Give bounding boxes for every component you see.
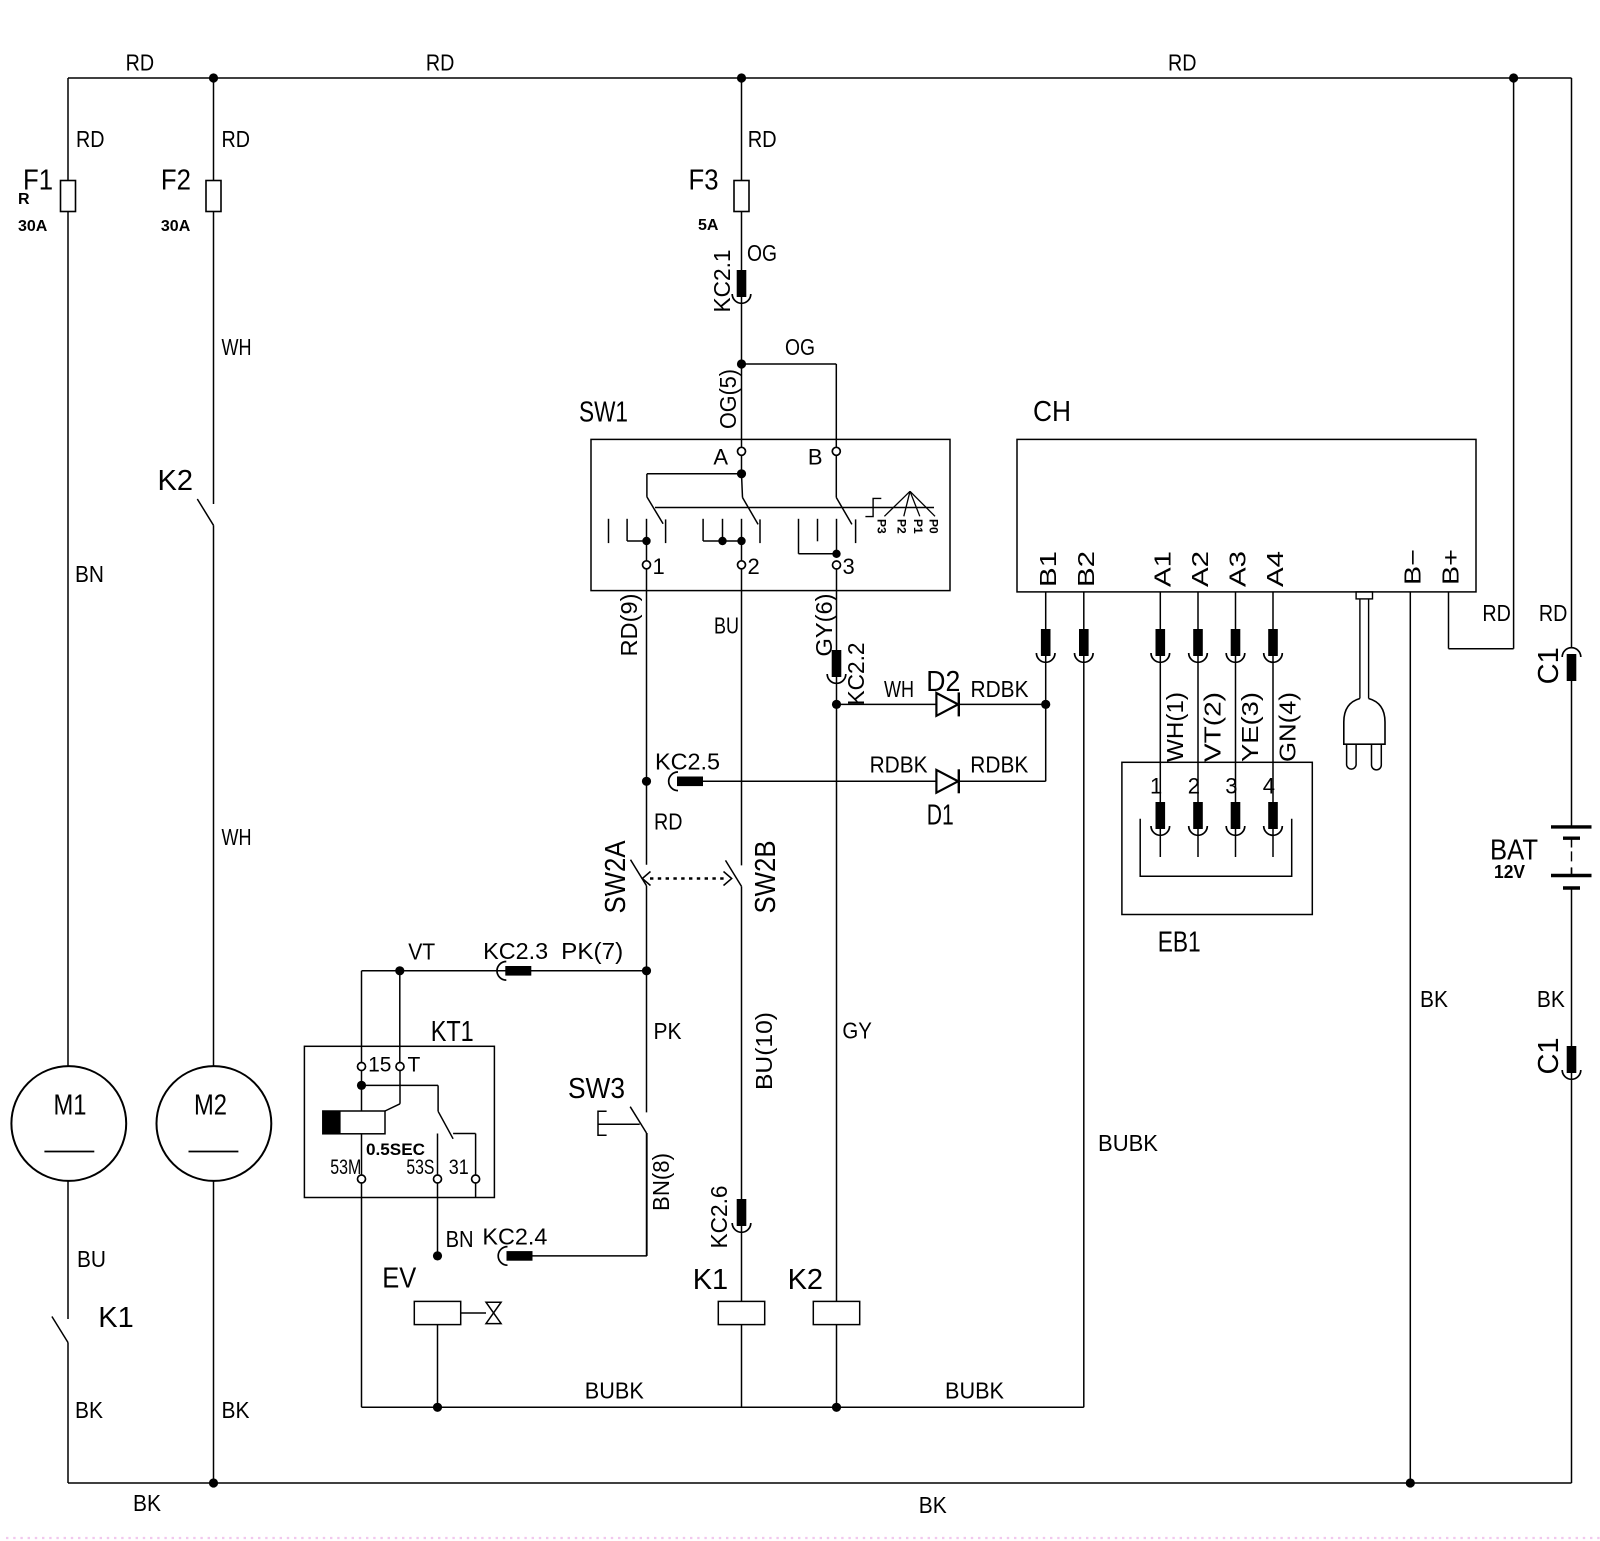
svg-text:BK: BK (222, 1397, 251, 1423)
svg-text:BK: BK (133, 1490, 162, 1516)
wire RD B+ riser to top rail (1448, 592, 1450, 649)
svg-text:2: 2 (748, 554, 760, 579)
wire BK K1 to bottom rail (67, 1343, 69, 1484)
switch arm section1 (647, 497, 663, 524)
wire GY(6) SW1 pin3 down (836, 569, 838, 650)
node section2 tap a (718, 537, 726, 545)
charger CH box (1017, 439, 1476, 592)
svg-text:GY(6): GY(6) (811, 594, 837, 657)
svg-text:RD: RD (126, 50, 155, 76)
svg-text:VT(2): VT(2) (1200, 692, 1226, 762)
svg-text:30A: 30A (161, 218, 191, 235)
switch K1 (relay contact) (52, 1317, 68, 1343)
wire GY down to coil K2 (836, 704, 838, 1301)
node SW1 common (737, 469, 746, 478)
svg-text:A: A (713, 444, 728, 469)
fuse F1 (61, 181, 76, 212)
svg-text:5A: 5A (698, 217, 719, 234)
wire RDBK D2 to node B1 (959, 703, 1046, 705)
svg-text:SW2A: SW2A (600, 840, 632, 914)
switch arm section2 (742, 474, 743, 498)
connector KC2.1 (737, 270, 747, 297)
svg-text:BUBK: BUBK (945, 1378, 1005, 1404)
svg-text:K2: K2 (788, 1264, 823, 1296)
switch SW1 box (591, 439, 950, 590)
svg-text:BUBK: BUBK (1098, 1130, 1159, 1156)
diode D2 (936, 693, 958, 716)
terminal 2 of SW1 (738, 561, 746, 569)
switch SW2B (726, 860, 742, 886)
wire BU SW1 pin2 down (741, 569, 743, 866)
connector KC2.6 (737, 1199, 747, 1226)
svg-text:OG(5): OG(5) (715, 369, 741, 429)
wire GN(4) CH to EB1 (1272, 592, 1274, 629)
svg-text:BN: BN (446, 1226, 474, 1252)
wire B1 riser (1045, 704, 1047, 781)
svg-text:WH: WH (222, 824, 252, 850)
switch SW2A (631, 860, 647, 886)
node D2/B1 junction (1041, 700, 1050, 709)
node section3 output (832, 550, 840, 558)
wire PK to SW3 (646, 971, 648, 1113)
connector KC2.3 (505, 966, 531, 976)
svg-text:WH: WH (884, 676, 914, 702)
mechanical link dashed (650, 877, 724, 879)
diode D1 (936, 770, 958, 793)
wire A to common node (741, 455, 743, 474)
svg-text:12V: 12V (1494, 862, 1525, 882)
relay coil K2 (813, 1301, 859, 1324)
svg-text:53M: 53M (330, 1156, 361, 1179)
svg-text:RD: RD (222, 126, 251, 152)
contacts section2 (702, 519, 704, 541)
svg-text:BK: BK (1537, 986, 1566, 1012)
svg-text:SW1: SW1 (579, 397, 628, 429)
wire B2 stub and connector (1083, 592, 1085, 629)
svg-text:CH: CH (1033, 396, 1071, 428)
svg-text:KC2.6: KC2.6 (706, 1186, 732, 1249)
wire BK battery to C1 lower (1571, 888, 1573, 1046)
svg-text:53S: 53S (406, 1156, 434, 1179)
svg-text:RD: RD (76, 126, 105, 152)
svg-text:EV: EV (382, 1263, 417, 1295)
wire YE(3) CH to EB1 (1235, 592, 1237, 629)
svg-text:P3: P3 (875, 519, 889, 534)
svg-text:YE(3): YE(3) (1237, 692, 1263, 762)
wire WH(1) CH to EB1 (1159, 592, 1161, 629)
svg-text:KC2.1: KC2.1 (709, 250, 735, 313)
svg-text:A4: A4 (1262, 551, 1288, 587)
node section2 tap b (737, 537, 745, 545)
node EV / BUBK rail (433, 1403, 442, 1412)
svg-text:PK: PK (654, 1018, 683, 1044)
mains plug of CH (1356, 592, 1372, 599)
wire OG branch to SW1 terminal B (742, 363, 837, 365)
svg-text:GN(4): GN(4) (1275, 692, 1301, 762)
terminal 53S (434, 1175, 442, 1183)
switch K2 (relay contact) (197, 499, 213, 525)
svg-text:1: 1 (1150, 774, 1162, 799)
fuse F3 (734, 181, 749, 212)
svg-text:B−: B− (1400, 549, 1426, 585)
terminal 1 of SW1 (643, 561, 651, 569)
contacts section1 (608, 519, 610, 543)
svg-text:B2: B2 (1073, 551, 1099, 587)
svg-text:P0: P0 (927, 519, 941, 534)
svg-text:K1: K1 (693, 1264, 728, 1296)
wire C1 to battery (1571, 681, 1573, 827)
node B- / bottom rail (1406, 1478, 1415, 1487)
svg-text:RDBK: RDBK (971, 676, 1030, 702)
svg-text:BU: BU (77, 1246, 106, 1272)
svg-text:M1: M1 (54, 1090, 87, 1122)
contact arm KT1 (438, 1111, 453, 1139)
wire WH F2 to switch K2 (213, 212, 215, 505)
svg-text:A2: A2 (1187, 551, 1213, 587)
terminal 15 of KT1 (358, 1063, 366, 1071)
svg-text:30A: 30A (18, 218, 48, 235)
svg-text:KC2.3: KC2.3 (483, 938, 548, 964)
wire OG KC2.1 to node (741, 297, 743, 364)
node junction top rail / B+ riser (1509, 73, 1518, 82)
svg-text:P1: P1 (911, 519, 925, 534)
connector KC2.4 (507, 1251, 533, 1261)
wire 53S down to EV node (437, 1183, 439, 1256)
wire BK C1 to bottom rail (1571, 1072, 1573, 1483)
motor M2 (157, 1066, 272, 1181)
push button actuator (598, 1111, 607, 1135)
svg-text:C1: C1 (1533, 1037, 1565, 1074)
wire EV coil to BUBK rail (437, 1325, 439, 1408)
connector KC2.5 (677, 777, 703, 787)
node section1 output (642, 537, 650, 545)
motor M1 (11, 1066, 126, 1181)
valve symbol (461, 1312, 486, 1314)
svg-text:M2: M2 (194, 1090, 227, 1122)
wire GY KC2.2 to node (836, 677, 838, 704)
svg-text:WH(1): WH(1) (1162, 692, 1188, 762)
wire B to section3 arm (835, 455, 837, 497)
connector C1 lower (1567, 1046, 1577, 1073)
svg-text:BK: BK (75, 1397, 104, 1423)
svg-text:OG: OG (747, 240, 777, 266)
wire common to section1 arm (647, 473, 742, 475)
svg-text:B+: B+ (1438, 549, 1464, 585)
svg-text:A3: A3 (1225, 551, 1251, 587)
wire PK SW2A to KC2.3 node (646, 886, 648, 971)
wire BK M2 to bottom rail (213, 1181, 215, 1483)
wire BK bottom rail (68, 1482, 1572, 1484)
svg-text:D2: D2 (926, 666, 960, 698)
position fan P0-P3 (884, 491, 910, 516)
svg-text:31: 31 (449, 1156, 469, 1179)
wire top RD rail (68, 77, 1572, 79)
svg-text:KC2.5: KC2.5 (655, 749, 720, 775)
terminal A of SW1 (738, 447, 746, 455)
svg-text:KT1: KT1 (431, 1016, 474, 1048)
node junction top rail / M2 branch (209, 73, 218, 82)
switch arm section3 (836, 498, 852, 525)
svg-text:2: 2 (1188, 774, 1200, 799)
terminal 3 of SW1 (833, 561, 841, 569)
node KT1 internal (357, 1081, 366, 1090)
svg-text:BN(8): BN(8) (648, 1153, 674, 1211)
svg-text:RD: RD (748, 126, 777, 152)
wire KC2.4 to SW3 bottom (531, 1255, 647, 1257)
wire K1 coil to BUBK rail (741, 1325, 743, 1408)
wire 53M to BUBK rail (361, 1183, 363, 1407)
svg-text:OG: OG (785, 334, 815, 360)
svg-text:A1: A1 (1150, 551, 1176, 587)
contacts section3 (798, 519, 800, 554)
svg-text:RD: RD (1482, 600, 1511, 626)
svg-text:F3: F3 (689, 165, 719, 197)
svg-text:RD: RD (654, 809, 683, 835)
EV coil (414, 1301, 460, 1324)
wire 15 to coil (361, 1071, 363, 1112)
svg-text:D1: D1 (927, 800, 954, 832)
node T branch (395, 966, 404, 975)
node KC2.5 tap (642, 777, 651, 786)
svg-text:4: 4 (1263, 774, 1275, 799)
wire B1 stub and connector (1045, 592, 1047, 629)
wire BU(10) SW2B down to KC2.6 (741, 886, 743, 1199)
svg-text:BUBK: BUBK (585, 1378, 645, 1404)
wire RD top rail to C1 (1571, 78, 1573, 647)
fuse F2 (206, 181, 221, 212)
svg-text:F2: F2 (161, 165, 191, 197)
svg-text:R: R (18, 191, 30, 208)
svg-text:EB1: EB1 (1158, 927, 1201, 959)
svg-text:3: 3 (1225, 774, 1237, 799)
svg-text:BN: BN (75, 561, 104, 587)
wire internal to contact arm (362, 1084, 439, 1086)
wire T to coil corner (399, 1071, 401, 1104)
svg-text:T: T (408, 1053, 421, 1076)
terminal B of SW1 (832, 447, 840, 455)
wire BU M1 to switch K1 (67, 1181, 69, 1319)
wire BN(8) SW3 down (646, 1133, 648, 1256)
switch SW3 (push button) (630, 1107, 646, 1133)
svg-text:PK(7): PK(7) (561, 938, 623, 964)
node D2 anode tap (832, 700, 841, 709)
contact 31 (453, 1133, 476, 1135)
wire WH K2 to motor M2 (213, 525, 215, 1066)
svg-text:C1: C1 (1533, 647, 1565, 684)
node junction top rail / F3 branch (737, 73, 746, 82)
svg-text:KC2.2: KC2.2 (843, 643, 869, 706)
svg-text:RD: RD (1168, 50, 1197, 76)
wire RDBK D1 to B1 riser (959, 780, 1046, 782)
node junction OG branch (737, 359, 746, 368)
svg-text:GY: GY (842, 1018, 872, 1044)
svg-text:3: 3 (843, 554, 855, 579)
svg-text:SW3: SW3 (568, 1073, 625, 1105)
svg-text:RD(9): RD(9) (616, 594, 642, 657)
svg-text:BK: BK (1420, 986, 1449, 1012)
node EV / KC2.4 (433, 1251, 442, 1260)
svg-text:1: 1 (653, 554, 665, 579)
wire VT line KT1 to KC2.3 (362, 970, 647, 972)
relay coil K1 (718, 1301, 764, 1324)
svg-text:RD: RD (426, 50, 455, 76)
wire BN F1 to motor M1 (67, 212, 69, 1067)
svg-text:B1: B1 (1035, 551, 1061, 587)
wire BUBK B2 down to rail (1083, 656, 1085, 1407)
wire KC2.6 to coil K1 (741, 1226, 743, 1302)
svg-text:RDBK: RDBK (970, 751, 1029, 777)
svg-text:RDBK: RDBK (870, 751, 929, 777)
svg-text:RD: RD (1539, 600, 1568, 626)
wire RD from rail to fuse F1 (67, 78, 69, 181)
svg-text:VT: VT (408, 939, 435, 965)
node K2 / BUBK rail (832, 1403, 841, 1412)
svg-text:K1: K1 (98, 1302, 133, 1334)
wire WH node to diode D2 (837, 703, 937, 705)
terminal 53M (358, 1175, 366, 1183)
connector C1 upper (1567, 654, 1577, 681)
wire RD rail to fuse F2 (213, 78, 215, 181)
terminal T of KT1 (396, 1063, 404, 1071)
terminal 31 (472, 1175, 480, 1183)
svg-text:BU(10): BU(10) (751, 1012, 777, 1090)
svg-text:KC2.4: KC2.4 (482, 1224, 547, 1250)
svg-text:BU: BU (714, 613, 739, 639)
wire coil to terminal 53M (361, 1134, 363, 1175)
page edge dotted line (6, 1537, 1600, 1539)
wire K2 coil to BUBK rail (836, 1325, 838, 1408)
wire F3 to connector KC2.1 (741, 212, 743, 271)
svg-text:15: 15 (368, 1053, 391, 1076)
timer coil KT1 (323, 1111, 341, 1134)
svg-text:BK: BK (919, 1492, 948, 1518)
wire BK B- down to bottom rail (1409, 592, 1411, 1483)
connector block EB1 box (1122, 762, 1312, 914)
wire OG node to SW1 terminal A (741, 364, 743, 448)
node KC2.3 / PK (642, 966, 651, 975)
svg-text:K2: K2 (158, 465, 193, 497)
wire common actuator line (655, 507, 934, 509)
svg-text:SW2B: SW2B (750, 841, 782, 914)
wire RD(9) SW1 pin1 down (646, 569, 648, 865)
detent stop symbol (865, 498, 881, 516)
connector KC2.2 (832, 650, 842, 677)
wire RDBK KC2.5 line to diode D1 (703, 780, 936, 782)
wire RD rail to fuse F3 (741, 78, 743, 181)
svg-text:WH: WH (222, 334, 252, 360)
wire VT(2) CH to EB1 (1197, 592, 1199, 629)
EB1 socket bracket (1140, 819, 1292, 877)
node junction M2 / bottom rail (209, 1478, 218, 1487)
svg-text:B: B (808, 444, 823, 469)
contact 53S (437, 1134, 439, 1176)
relay KT1 box (304, 1046, 494, 1197)
svg-text:P2: P2 (895, 519, 909, 534)
